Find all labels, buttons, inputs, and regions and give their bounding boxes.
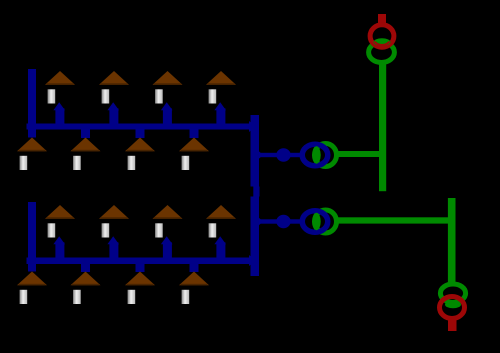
antenna D2 [71, 272, 101, 305]
wire: green horizontal from coupler K2 [337, 217, 456, 223]
wire: up arrow to antenna A2 [107, 102, 119, 127]
antenna B2 [71, 138, 101, 171]
source S2 (bottom-right green/red rings) [440, 284, 466, 331]
ring: red ring of S1 [370, 25, 394, 48]
antenna A1 [45, 71, 75, 104]
antenna B1 [17, 138, 47, 171]
wire: down stub to antenna D2 [81, 264, 90, 273]
coupler K1 (blue/green interlocked rings) [252, 144, 337, 167]
ring overlap: green lens of S2 [445, 301, 461, 309]
wire: up arrow to antenna C1 [53, 236, 65, 260]
ring: green ring of S2 [440, 284, 465, 302]
source S1 (top-right red/green rings) [369, 14, 395, 63]
wire: vertical trunk line middle sliver [253, 187, 259, 197]
wire: up arrow to antenna C2 [107, 236, 119, 260]
antenna B3 [125, 138, 155, 171]
antenna D4 [179, 272, 209, 305]
ring: green ring of S1 [369, 42, 395, 62]
wire: up arrow to antenna A1 [53, 102, 65, 127]
wire: green vertical drop to bottom source [448, 198, 456, 284]
wire: up arrow to antenna C4 [214, 236, 226, 260]
wire: horizontal bus 2 [27, 258, 252, 265]
antenna C3 [153, 205, 183, 238]
wire: up arrow to antenna A4 [214, 102, 226, 127]
wire: green vertical riser to top source [379, 64, 386, 192]
antenna A3 [153, 71, 183, 104]
wire: up arrow to antenna A3 [161, 102, 173, 127]
wire: red stub above S1 [378, 14, 386, 24]
wire: down stub to antenna B4 [190, 130, 199, 139]
wire: left vertical feed line group 1 [28, 69, 36, 138]
wire: vertical trunk line lower segment [251, 197, 260, 277]
wire: red stub below S2 [448, 318, 457, 331]
ring: red ring of S2 [440, 297, 465, 319]
antenna C4 [206, 205, 236, 238]
antenna A2 [99, 71, 129, 104]
antenna B4 [179, 138, 209, 171]
ring overlap: red inner arc of S1 across lens [375, 42, 390, 45]
antenna D1 [17, 272, 47, 305]
wire: down stub to antenna B3 [136, 130, 145, 139]
antenna A4 [206, 71, 236, 104]
antenna D3 [125, 272, 155, 305]
wire: horizontal bus 1 [27, 124, 252, 130]
ring overlap: green lens of S1 [374, 38, 391, 46]
wire: down stub to antenna B2 [81, 130, 90, 139]
antenna C2 [99, 205, 129, 238]
wire: up arrow to antenna C3 [161, 236, 173, 260]
antenna C1 [45, 205, 75, 238]
wire: bus 1 arrowhead into trunk [249, 121, 256, 132]
wire: vertical trunk line upper segment [251, 115, 260, 187]
wire: left vertical feed line group 2 [28, 202, 36, 272]
wire: down stub to antenna D4 [190, 264, 199, 273]
wire: bus 2 arrowhead into trunk [249, 255, 256, 266]
wire: green horizontal from coupler K1 [337, 151, 385, 157]
coupler K2 (blue/green interlocked rings) [252, 210, 337, 233]
wire: down stub to antenna D3 [136, 264, 145, 273]
